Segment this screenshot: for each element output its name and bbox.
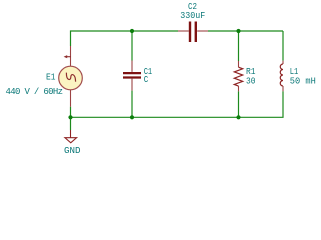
inductor L1 top pin	[282, 61, 284, 64]
wire E1 bottom stub	[70, 107, 72, 118]
wire C1 bottom stub	[131, 91, 133, 118]
voltage source E1 polarity arrow	[66, 56, 71, 58]
wire top rail right (C2 right pin to top-right corner)	[208, 30, 283, 32]
voltage source E1 sine symbol	[66, 73, 75, 82]
svg-text:R1: R1	[246, 67, 256, 77]
svg-text:330uF: 330uF	[180, 11, 205, 21]
resistor R1 zigzag	[234, 67, 242, 86]
wire R1 top stub	[238, 31, 240, 61]
ground symbol triangle	[65, 138, 77, 143]
svg-text:30: 30	[246, 77, 256, 87]
capacitor C2 left pin	[178, 30, 189, 32]
capacitor C1 top plate	[123, 72, 141, 74]
capacitor C2 right pin	[197, 30, 208, 32]
voltage source E1 body	[59, 66, 83, 90]
svg-text:L1: L1	[290, 67, 299, 77]
wire top rail left (E1 top to C2 left pin)	[71, 31, 179, 46]
wire R1 bottom stub	[238, 91, 240, 117]
capacitor C2 left plate	[189, 22, 191, 43]
voltage source E1 top pin	[70, 46, 72, 66]
wire bottom rail	[71, 91, 284, 117]
wire L1 top stub	[282, 31, 284, 61]
wire C1 top stub	[131, 31, 133, 61]
capacitor C2 right plate	[195, 22, 197, 43]
svg-text:E1: E1	[46, 73, 56, 83]
svg-text:GND: GND	[64, 146, 81, 156]
junction E1 bottom	[68, 115, 72, 119]
junction C1 bottom	[130, 115, 134, 119]
junction R1 top	[236, 29, 240, 33]
voltage source E1 bottom pin	[70, 90, 72, 107]
resistor R1 top pin	[238, 61, 240, 67]
junction C1 top	[130, 29, 134, 33]
wire ground stub	[70, 117, 72, 130]
ground pin	[70, 130, 72, 138]
svg-text:50 mH: 50 mH	[290, 77, 316, 87]
capacitor C1 top pin	[131, 61, 133, 72]
capacitor C1 bottom pin	[131, 79, 133, 91]
junction R1 bottom	[236, 115, 240, 119]
capacitor C1 bottom plate	[123, 76, 141, 78]
svg-text:440 V / 60Hz: 440 V / 60Hz	[6, 87, 64, 97]
svg-text:C: C	[144, 75, 149, 85]
resistor R1 bottom pin	[238, 86, 240, 91]
inductor L1 coil	[280, 64, 283, 86]
inductor L1 bottom pin	[282, 86, 284, 91]
